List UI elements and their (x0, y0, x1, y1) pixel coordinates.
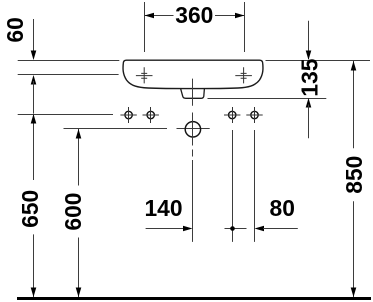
dimension 60 lower tail (33, 81, 35, 114)
dimension 80 line (263, 228, 298, 230)
accessory holes reference line (18, 114, 113, 116)
dimension 140 right arrow (183, 226, 193, 232)
drain trap outlet (181, 89, 205, 99)
dimension 600 up arrow (76, 129, 82, 139)
dimension 140 line (146, 228, 184, 230)
drain outlet bottom reference line (208, 98, 327, 100)
hole C centerline (232, 130, 234, 242)
svg-text:360: 360 (175, 2, 213, 28)
dimension 600 line (78, 129, 80, 297)
dimension 135 up arrow (306, 98, 312, 108)
svg-text:60: 60 (2, 17, 28, 42)
rim lower reference line (18, 74, 119, 76)
hole D centerline (254, 130, 256, 242)
dimension 650 down arrow (31, 288, 37, 298)
right fixing hole crosshair (235, 67, 252, 83)
dimension 360 right arrow (235, 13, 245, 19)
dimension 650 up arrow (31, 114, 37, 124)
drain centerline (192, 79, 194, 242)
dimension 360 left arrow (145, 13, 155, 19)
dimension 135 down arrow (306, 51, 312, 61)
svg-text:850: 850 (341, 156, 367, 194)
dimension 650 line (33, 114, 35, 297)
basin outline (123, 60, 263, 88)
hole A (120, 107, 136, 123)
dimension 850 line (353, 61, 355, 297)
floor line (17, 297, 371, 300)
drain crosshair horizontal (177, 128, 210, 130)
svg-text:600: 600 (60, 193, 86, 231)
hole B (143, 107, 159, 123)
svg-text:140: 140 (144, 195, 182, 221)
dimension 135 upper line (308, 21, 310, 59)
dimension 80 left arrow (255, 226, 265, 232)
svg-text:80: 80 (270, 195, 295, 221)
hole C (224, 107, 240, 123)
drain circle (185, 122, 200, 137)
dimension 360 extension lines (145, 2, 245, 52)
left fixing hole crosshair (136, 67, 153, 83)
drain height reference line (64, 128, 168, 130)
dimension 135 lower tail (308, 105, 310, 139)
hole D (246, 107, 262, 123)
dimension 600 down arrow (76, 288, 82, 298)
dimension 60 up arrow (31, 75, 37, 85)
wall line (rim level) (18, 60, 370, 62)
svg-text:650: 650 (17, 190, 43, 228)
dimension 60 down arrow (31, 51, 37, 61)
dimension 850 up arrow (351, 61, 357, 71)
dimension 360 line (145, 15, 245, 17)
dimension 850 down arrow (351, 288, 357, 298)
dimension terminator dot (225, 226, 247, 231)
svg-text:135: 135 (296, 58, 322, 96)
dimension 60 upper line (33, 19, 35, 59)
